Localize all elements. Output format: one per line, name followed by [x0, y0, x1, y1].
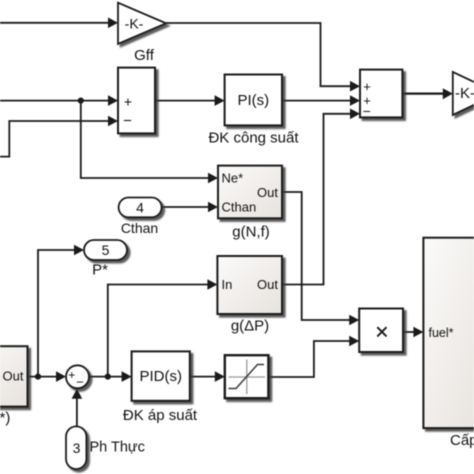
- wire: Out block to sum circle: [28, 376, 58, 378]
- svg-text:Gff: Gff: [134, 47, 155, 64]
- svg-text:+: +: [363, 79, 371, 94]
- svg-text:Ph Thực: Ph Thực: [90, 440, 145, 456]
- arrowhead into PI(s): [215, 95, 225, 106]
- svg-text:4: 4: [136, 200, 144, 216]
- svg-text:3: 3: [73, 440, 81, 456]
- wire: branch up to g(dP) In: [108, 285, 209, 377]
- arrowhead into PID(s): [122, 371, 132, 382]
- saturation block: [225, 355, 269, 398]
- output gain -K-: [453, 72, 474, 115]
- arrowhead into Add3 input1: [350, 81, 360, 92]
- wire: branch to Ne* of g(N,f): [81, 101, 209, 178]
- wire: g(N,f) Out down to product input 1: [282, 192, 350, 320]
- arrowhead into Cthan port: [208, 202, 218, 213]
- PID controller U2: [123, 351, 198, 423]
- gain Gff: [118, 3, 166, 64]
- svg-text:-K-: -K-: [455, 85, 474, 102]
- arrowhead into Gff: [108, 18, 118, 29]
- subsystem g(dP): [217, 256, 282, 334]
- svg-text:*): *): [0, 410, 10, 427]
- PI controller U1: [208, 75, 299, 147]
- junction node C: [105, 374, 111, 380]
- svg-text:g(N,f): g(N,f): [232, 224, 270, 241]
- wire: product to fuel*: [403, 331, 414, 333]
- wire: PI(s) to Add3 input 2: [282, 100, 351, 102]
- sum Add1: [118, 68, 155, 134]
- svg-text:PI(s): PI(s): [237, 92, 269, 109]
- subsystem g(N,f): [218, 166, 282, 241]
- arrowhead into output gain: [443, 88, 453, 99]
- svg-text:fuel*: fuel*: [429, 326, 454, 340]
- svg-text:Cấp n: Cấp n: [450, 432, 474, 449]
- arrowhead into Add3 input2: [350, 95, 360, 106]
- wire: branch up to P* outport: [38, 250, 75, 377]
- svg-text:Cthan: Cthan: [121, 220, 158, 236]
- svg-text:Ne*: Ne*: [222, 171, 244, 186]
- junction node A: [78, 98, 84, 104]
- wire: Ph Thuc up to sum circle: [76, 398, 78, 426]
- arrowhead into product input2: [349, 336, 359, 347]
- wire: input to Gff gain: [0, 22, 109, 24]
- svg-text:+: +: [124, 93, 132, 109]
- arrowhead into Add3 minus: [350, 109, 360, 120]
- junction node B: [35, 374, 41, 380]
- svg-text:−: −: [76, 375, 84, 390]
- arrowhead into Ne*: [208, 173, 218, 184]
- inport 3 Ph Thuc: [66, 426, 145, 469]
- svg-text:ĐK công suất: ĐK công suất: [208, 129, 299, 146]
- svg-text:−: −: [123, 112, 132, 129]
- svg-text:-K-: -K-: [125, 16, 144, 32]
- svg-text:Out: Out: [257, 185, 278, 200]
- wire: Cthan constant to g(N,f): [162, 206, 210, 208]
- svg-text:PID(s): PID(s): [139, 368, 182, 385]
- svg-text:−: −: [363, 103, 371, 119]
- wire: input to Add1 plus: [0, 100, 109, 102]
- svg-text:Cthan: Cthan: [222, 199, 257, 214]
- arrowhead into P* outport: [74, 245, 84, 256]
- outport 5 P*: [84, 240, 127, 279]
- wire: sum circle to PID(s): [89, 376, 123, 378]
- arrowhead into saturation: [215, 371, 225, 382]
- arrowhead up into sum circle bottom: [72, 389, 83, 399]
- arrowhead into fuel*: [413, 327, 423, 338]
- sum circle: [66, 365, 89, 389]
- wire: PID(s) to saturation: [190, 376, 216, 378]
- wire: Add3 to output gain: [402, 92, 443, 94]
- wire: saturation up to product input 2: [268, 341, 350, 377]
- wire: input to Add1 minus: [0, 121, 109, 157]
- svg-text:Out: Out: [257, 277, 278, 292]
- subsystem Cap nhien lieu (fuel supply): [423, 238, 474, 449]
- arrowhead into g(dP) In: [207, 279, 217, 290]
- wire: Add1 to PI(s): [155, 100, 216, 102]
- sum Add3: [360, 70, 402, 119]
- svg-text:Out: Out: [3, 369, 24, 384]
- svg-text:ĐK áp suất: ĐK áp suất: [123, 407, 198, 424]
- svg-text:5: 5: [102, 242, 110, 258]
- svg-text:+: +: [68, 368, 75, 382]
- svg-text:P*: P*: [92, 262, 108, 279]
- arrowhead into Add1 minus: [108, 116, 118, 127]
- product block: [359, 309, 403, 353]
- svg-text:In: In: [222, 277, 233, 292]
- arrowhead into product input1: [349, 315, 359, 326]
- constant 4 Cthan: [119, 198, 162, 237]
- wire: Gff output to Add3 input 1: [166, 23, 351, 86]
- arrowhead into sum circle: [56, 371, 66, 382]
- arrowhead into Add1 plus: [108, 95, 118, 106]
- subsystem Out (cropped at left edge): [0, 346, 28, 426]
- wire: g(dP) Out up to Add3 minus: [282, 114, 351, 285]
- svg-text:g(ΔP): g(ΔP): [231, 317, 269, 334]
